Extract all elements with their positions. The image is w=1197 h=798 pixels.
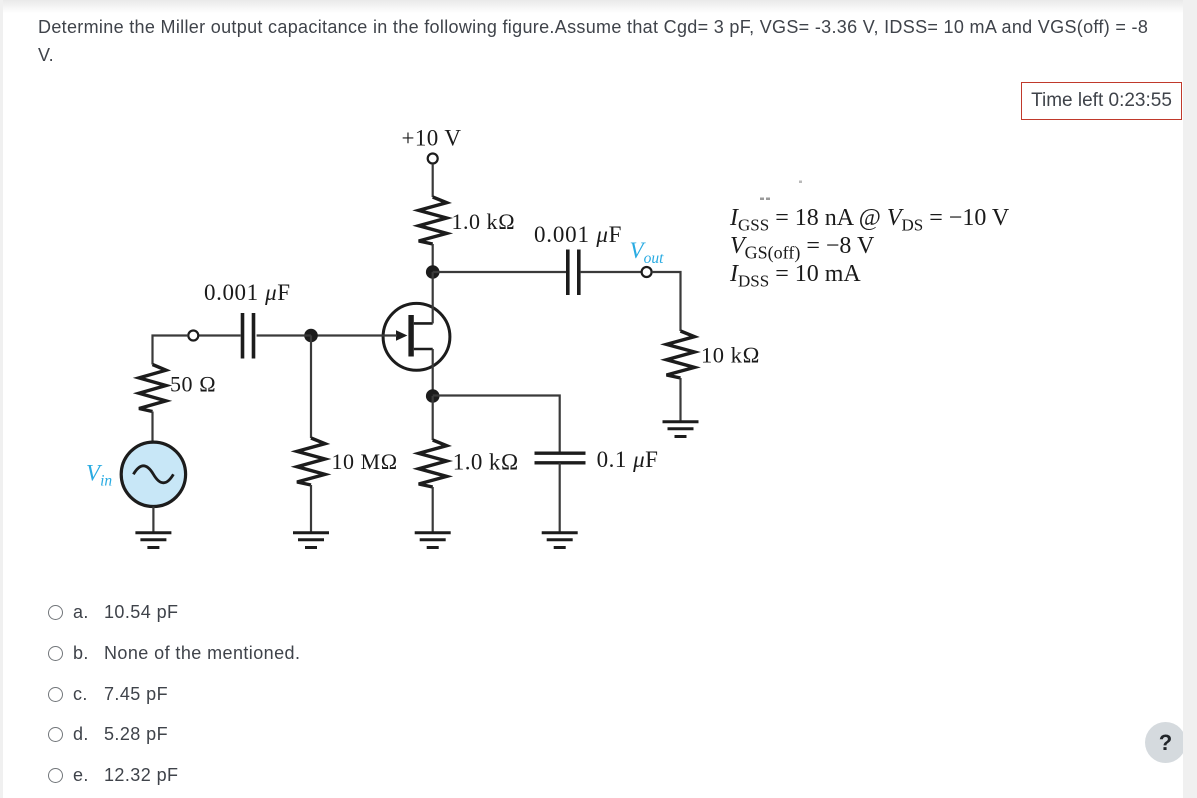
capacitor 0.1 uF bypass [535,452,586,455]
svg-text:IDSS = 10 mA: IDSS = 10 mA [729,261,861,291]
ground (bypass cap) [542,533,578,548]
resistor RG 10 MOhm [297,438,325,485]
svg-text:+10 V: +10 V [402,125,462,150]
wire R_L to ground [679,378,681,421]
wire Vin to ground [152,507,154,533]
wire bypass cap to ground [559,463,561,532]
wire source node to RS2 [432,396,434,440]
wire +10V to R_D [432,164,434,197]
wire source branch corner [153,336,189,365]
capacitor 0.001 uF (input coupling) [241,313,245,359]
wire JFET source down [432,349,434,396]
wire input terminal to cap [198,334,241,336]
capacitor 0.001 uF (output coupling) [566,250,570,296]
svg-text:0.001 μF: 0.001 μF [204,280,291,305]
ground (RS2) [415,533,451,548]
terminal +10V [428,154,438,164]
wire source node to bypass cap [433,396,560,452]
ground (RG) [293,533,329,548]
terminal Vout [642,267,652,277]
svg-text:10 MΩ: 10 MΩ [332,449,398,474]
wire RS to Vin [151,412,153,442]
artifact dot [799,181,802,184]
node gate [304,329,318,343]
wire drain node to output cap [433,271,566,273]
svg-text:Vin: Vin [86,461,112,490]
resistor RS2 1.0 kOhm (source) [419,440,447,487]
source Vin [121,442,185,506]
wire gate [311,334,397,336]
svg-text:VGS(off) = −8 V: VGS(off) = −8 V [730,233,875,264]
svg-text:50 Ω: 50 Ω [170,372,216,397]
wire RS2 to ground [432,487,434,532]
terminal input [188,331,198,341]
wire drain node to JFET drain [432,272,434,323]
resistor R_D 1.0 kOhm (drain) [419,197,447,244]
JFET Q1 [383,303,450,370]
options [0,602,600,626]
wire gate node to RG [310,336,312,439]
node drain [426,265,440,279]
wire input cap to gate node [257,334,311,336]
svg-text:10 kΩ: 10 kΩ [701,342,760,367]
wire Vout to load branch [652,272,681,331]
resistor RS 50 Ohm [139,365,166,412]
node source [426,389,440,403]
resistor R_L 10 kOhm [667,331,695,378]
ground (load) [663,422,699,437]
wire RG to ground [310,485,312,532]
artifact dash [760,198,764,201]
svg-text:1.0 kΩ: 1.0 kΩ [453,450,519,475]
svg-text:1.0 kΩ: 1.0 kΩ [452,209,516,234]
svg-text:0.001 μF: 0.001 μF [534,222,622,247]
ground (Vin) [135,533,171,548]
svg-text:0.1 μF: 0.1 μF [597,447,659,472]
wire output cap to Vout terminal [581,271,642,273]
svg-text:Vout: Vout [630,238,665,267]
svg-text:IGSS = 18 nA @ VDS = −10 V: IGSS = 18 nA @ VDS = −10 V [729,205,1010,235]
wire R_D to drain node [432,244,434,272]
